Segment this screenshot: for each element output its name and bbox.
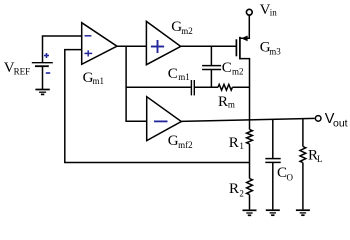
V_in terminal [246, 9, 252, 15]
svg-text:R: R [218, 94, 228, 110]
node A riser and wire to G_mf2 input [126, 46, 147, 121]
G_m1 plus input symbol [84, 50, 92, 56]
op-amp G_m1 [82, 23, 117, 65]
wire R_1 to R_2 through feedback node [249, 144, 251, 179]
wire feedback to G_m1 + input [65, 50, 250, 163]
svg-text:REF: REF [14, 67, 31, 77]
svg-text:C: C [168, 66, 178, 82]
svg-text:C: C [277, 165, 287, 181]
resistor R_m [218, 84, 232, 90]
svg-text:m1: m1 [93, 76, 105, 86]
ground under R_L [296, 210, 310, 215]
svg-text:in: in [270, 8, 278, 18]
svg-text:O: O [287, 173, 294, 183]
wire C_O to ground [272, 163, 274, 210]
svg-text:C: C [222, 60, 232, 76]
svg-text:2: 2 [239, 189, 244, 199]
wire battery top to G_m1 inverting input [43, 36, 82, 62]
output rail [181, 118, 314, 121]
wire rail to C_O [272, 119, 274, 158]
transistor G_m3 channel bar [239, 37, 241, 60]
resistor R_2 [247, 179, 253, 195]
svg-text:m2: m2 [181, 26, 193, 36]
G_m1 minus input symbol [85, 35, 92, 37]
wire R_2 to ground [249, 195, 251, 210]
V_out terminal [315, 116, 321, 122]
wire R_L to ground [302, 163, 304, 210]
capacitor C_m1 [191, 80, 194, 95]
G_m3 source arrow [241, 36, 248, 42]
svg-text:1: 1 [239, 141, 244, 151]
battery minus label [46, 72, 50, 74]
wire R_m to drain column [232, 86, 249, 88]
battery plus label [44, 53, 49, 58]
svg-text:R: R [229, 135, 239, 151]
svg-text:L: L [317, 154, 323, 164]
svg-text:mf2: mf2 [178, 140, 193, 150]
resistor R_1 [247, 130, 253, 144]
svg-text:out: out [333, 118, 348, 130]
wire rail to R_1 [249, 120, 251, 130]
ground under C_O [266, 210, 280, 215]
G_m3 drain lead down to output rail [240, 59, 250, 120]
battery VREF bottom plate (-) [35, 65, 49, 67]
wire rail to R_L [302, 119, 304, 147]
svg-text:R: R [229, 181, 239, 197]
capacitor C_O [265, 159, 280, 163]
svg-text:m1: m1 [178, 72, 190, 82]
wire C_m1 to R_m [195, 86, 218, 88]
ground under R_2 [243, 210, 257, 215]
resistor R_L [300, 147, 306, 163]
ground under battery [35, 90, 49, 95]
G_m3 source lead [240, 15, 249, 38]
svg-text:m2: m2 [232, 67, 244, 77]
op-amp G_mf2 [147, 97, 182, 141]
G_mf2 minus symbol [154, 120, 168, 122]
wire node A to C_m1 [126, 86, 191, 88]
capacitor C_m2 [202, 66, 221, 70]
G_m2 plus symbol [151, 40, 164, 53]
svg-text:m: m [228, 100, 235, 110]
wire G_m2 output to G_m3 gate [181, 45, 237, 47]
svg-text:m3: m3 [269, 46, 281, 56]
op-amp G_m2 [146, 21, 180, 64]
wire G_m1 output to G_m2 input [117, 45, 146, 47]
battery VREF top plate (+) [32, 62, 53, 64]
C_m2 riser wires [210, 46, 212, 65]
wire battery to ground [42, 66, 44, 89]
transistor G_m3 gate bar [235, 39, 237, 56]
